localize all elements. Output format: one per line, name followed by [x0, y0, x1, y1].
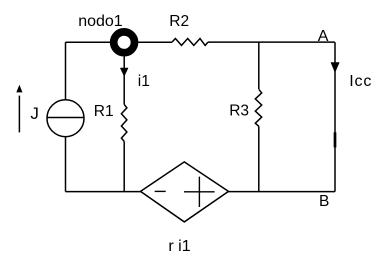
svg-text:A: A: [318, 28, 329, 45]
resistor R3: [255, 89, 261, 126]
svg-text:B: B: [319, 193, 329, 210]
current direction arrow for J: [18, 96, 20, 133]
wire R3 to bottom rail: [258, 126, 260, 191]
wire R1 to bottom rail: [123, 141, 125, 191]
resistor R1: [121, 105, 127, 142]
svg-text:R3: R3: [229, 103, 249, 120]
svg-text:Icc: Icc: [349, 73, 372, 90]
current source J: [47, 100, 84, 137]
resistor R2: [172, 39, 208, 46]
svg-text:r i1: r i1: [168, 238, 190, 255]
wire R3 branch upper: [258, 42, 260, 89]
dependent source diamond: [141, 162, 229, 222]
svg-text:J: J: [30, 104, 39, 123]
plus sign: [184, 177, 215, 207]
wire left branch upper: [65, 42, 67, 100]
wire right branch: [334, 42, 336, 191]
wire node stem / R1 branch: [123, 42, 125, 104]
arrow Icc: [331, 63, 339, 73]
wire left branch lower: [65, 136, 67, 191]
node nodo1: [114, 32, 135, 53]
wire top rail: [66, 41, 173, 43]
svg-text:nodo1: nodo1: [78, 13, 123, 30]
svg-text:R2: R2: [169, 13, 189, 30]
wire bottom rail: [66, 191, 336, 193]
minus sign: [155, 190, 166, 192]
arrow i1: [120, 68, 128, 76]
wire right branch overlap segment: [334, 132, 337, 147]
svg-text:R1: R1: [94, 103, 114, 120]
svg-text:i1: i1: [138, 73, 150, 90]
